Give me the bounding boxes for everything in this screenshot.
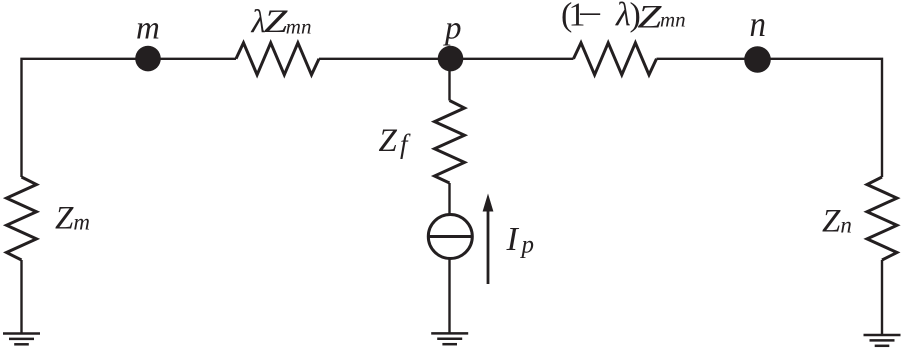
svg-text:Zf: Zf <box>379 123 412 159</box>
ground left <box>3 334 40 345</box>
svg-text:m: m <box>136 11 160 47</box>
wire right lower segment <box>881 260 883 336</box>
resistor λZmn <box>236 43 319 75</box>
svg-text:n: n <box>750 4 767 44</box>
resistor Zf <box>435 101 465 184</box>
node n <box>744 46 771 73</box>
wire middle resistor to source <box>448 183 450 215</box>
label (1-λ)Zmn <box>561 0 686 36</box>
current source chord <box>428 235 472 238</box>
ground right <box>864 335 901 346</box>
svg-text:Z: Z <box>264 4 288 40</box>
wire top-left (left corner down to resistor Zm) <box>22 59 237 177</box>
resistor (1-λ)Zmn <box>574 43 657 75</box>
svg-text:mn: mn <box>660 8 686 32</box>
node p <box>438 46 464 72</box>
svg-text:Zn: Zn <box>822 204 852 240</box>
current arrow Ip <box>483 194 494 285</box>
wire left lower segment <box>20 260 22 334</box>
node m <box>135 46 161 72</box>
wire middle source to ground <box>448 259 450 335</box>
ground middle <box>431 333 468 344</box>
svg-text:p: p <box>443 11 462 47</box>
svg-text:Zm: Zm <box>55 201 90 237</box>
label λZmn <box>251 4 312 40</box>
current source Ip circle <box>428 215 472 259</box>
svg-text:mn: mn <box>286 15 312 39</box>
wire middle from node p down <box>448 59 450 101</box>
wire right top segment <box>657 59 883 177</box>
resistor Zn <box>867 177 897 260</box>
wire between resistor and node p region <box>319 58 574 60</box>
svg-text:Z: Z <box>637 0 662 36</box>
svg-text:−: − <box>578 0 603 34</box>
svg-text:λ: λ <box>615 0 631 34</box>
resistor Zm <box>7 177 37 260</box>
svg-text:Ip: Ip <box>506 221 535 259</box>
